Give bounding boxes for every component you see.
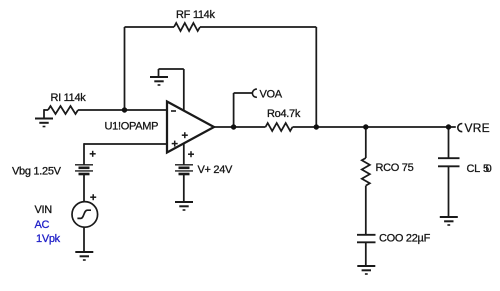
svg-text:CL: CL xyxy=(467,163,481,175)
svg-text:U1!OPAMP: U1!OPAMP xyxy=(105,121,159,133)
svg-text:COO 22µF: COO 22µF xyxy=(379,233,431,245)
svg-text:Vbg 1.25V: Vbg 1.25V xyxy=(12,166,62,178)
svg-text:Ro4.7k: Ro4.7k xyxy=(267,108,301,120)
svg-text:VIN: VIN xyxy=(35,204,53,216)
svg-text:VRE: VRE xyxy=(465,121,490,135)
svg-text:RI 114k: RI 114k xyxy=(51,92,87,104)
svg-text:AC: AC xyxy=(35,219,50,231)
svg-text:RCO 75: RCO 75 xyxy=(376,162,414,174)
svg-text:V+ 24V: V+ 24V xyxy=(198,164,234,176)
svg-text:RF 114k: RF 114k xyxy=(176,9,215,21)
svg-text:50: 50 xyxy=(483,163,492,175)
svg-text:VOA: VOA xyxy=(260,89,283,101)
svg-text:1Vpk: 1Vpk xyxy=(36,233,61,245)
